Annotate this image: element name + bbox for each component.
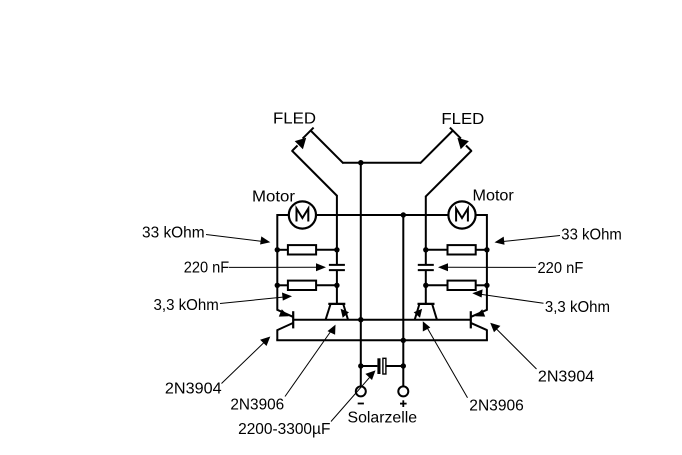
capacitor C1 220nF left top plate xyxy=(329,264,345,266)
wire storage cap right lead xyxy=(386,365,403,367)
arrow 3,3kOhm right xyxy=(472,289,482,297)
svg-text:3,3 kOhm: 3,3 kOhm xyxy=(154,297,219,314)
node R1 right end xyxy=(334,247,339,252)
FLED D1 anode wire stub xyxy=(292,146,298,152)
FLED D2 cathode wire xyxy=(420,131,453,164)
wire center-left vertical xyxy=(360,163,362,387)
resistor R3 33k right stub left xyxy=(426,249,448,251)
arrow 2N3906 left xyxy=(328,325,336,335)
motor M1 circle xyxy=(289,201,316,228)
svg-text:33 kOhm: 33 kOhm xyxy=(561,227,622,244)
leader 2N3904 right xyxy=(496,329,537,370)
FLED D2 cathode bar xyxy=(450,128,461,139)
resistor R4 3,3k right stub right xyxy=(476,284,487,286)
transistor Q1 2N3904 left base bar xyxy=(292,311,294,328)
node storage cap right tap xyxy=(401,363,406,368)
wire left outer vertical xyxy=(276,214,278,311)
node R3 right end xyxy=(484,247,489,252)
arrow 2200-3300uF xyxy=(365,370,375,380)
plus sign horizontal xyxy=(400,403,407,405)
transistor Q1 emitter diagonal xyxy=(277,323,293,330)
arrow 33kOhm left xyxy=(260,236,270,244)
svg-text:Motor: Motor xyxy=(252,188,296,205)
node bus right-center junction xyxy=(401,338,406,343)
transistor Q2 emitter leg xyxy=(343,305,348,320)
resistor R4 3,3k right body xyxy=(448,281,476,290)
FLED D1 cathode bar xyxy=(303,128,314,139)
node R3 left end xyxy=(423,247,428,252)
transistor Q3 emitter diagonal xyxy=(471,323,487,330)
arrow 3,3kOhm left xyxy=(282,293,292,301)
arrow 2N3904 right xyxy=(490,323,500,333)
transistor Q2 emitter arrow xyxy=(341,309,349,318)
motor M1 letter M xyxy=(297,209,309,222)
node motor row right junction xyxy=(401,212,406,217)
transistor Q4 emitter leg xyxy=(415,305,420,320)
leader 3,3kOhm left xyxy=(220,297,284,304)
transistor Q1 collector arrow xyxy=(279,309,289,316)
FLED D2 anode triangle xyxy=(457,138,469,150)
capacitor C1 220nF left bottom plate xyxy=(329,269,345,271)
svg-text:FLED: FLED xyxy=(441,111,484,128)
wire Q3 emitter vertical xyxy=(486,329,488,340)
wire center-right vertical xyxy=(402,215,404,387)
svg-text:3,3 kOhm: 3,3 kOhm xyxy=(545,299,610,316)
leader 220nF right xyxy=(446,266,536,268)
wire right cap branch vertical lower xyxy=(425,271,427,304)
leader 2N3906 left xyxy=(285,331,331,397)
resistor R1 33k left body xyxy=(288,245,316,254)
wire bottom bus xyxy=(276,339,488,341)
terminal plus circle xyxy=(398,386,408,396)
transistor Q2 collector leg xyxy=(326,305,331,320)
node base row left-center junction xyxy=(358,317,363,322)
svg-text:FLED: FLED xyxy=(273,111,316,128)
transistor Q3 collector arrow xyxy=(475,309,485,316)
transistor Q4 emitter arrow xyxy=(414,309,422,318)
terminal minus circle xyxy=(356,386,366,396)
svg-text:220 nF: 220 nF xyxy=(184,259,230,276)
motor M2 letter M xyxy=(456,209,468,222)
transistor Q1 collector diagonal xyxy=(277,310,293,317)
arrow 33kOhm right xyxy=(495,237,505,245)
transistor Q4 collector leg xyxy=(432,305,437,320)
capacitor C3 2200-3300uF negative plate xyxy=(377,358,380,374)
plus sign vertical xyxy=(402,400,404,407)
motor M2 circle xyxy=(448,201,475,228)
svg-text:2N3906: 2N3906 xyxy=(469,397,524,414)
svg-text:2N3906: 2N3906 xyxy=(230,397,284,414)
svg-text:Motor: Motor xyxy=(473,187,515,204)
svg-text:2N3904: 2N3904 xyxy=(538,368,594,385)
wire D1 anode to left cap branch xyxy=(292,151,337,197)
FLED D2 anode wire stub xyxy=(466,146,472,152)
svg-text:2N3904: 2N3904 xyxy=(165,380,222,397)
wire motor row horizontal xyxy=(277,214,487,216)
resistor R1 33k left stub right xyxy=(316,249,337,251)
resistor R3 33k right stub right xyxy=(476,249,487,251)
leader 33kOhm right xyxy=(503,236,560,242)
node R1 left end xyxy=(275,247,280,252)
minus sign xyxy=(358,403,364,405)
node R2 left end xyxy=(275,283,280,288)
svg-text:2200-3300µF: 2200-3300µF xyxy=(238,421,331,438)
arrow 220nF right xyxy=(438,263,448,271)
capacitor C3 2200-3300uF positive plate xyxy=(383,358,386,374)
node top center junction xyxy=(358,160,363,165)
arrow 2N3904 left xyxy=(260,337,270,347)
leader 220nF left xyxy=(229,266,318,268)
wire left cap branch vertical upper xyxy=(336,195,338,264)
wire storage cap left lead xyxy=(361,365,378,367)
wire left cap branch vertical lower xyxy=(336,271,338,304)
resistor R1 33k left stub left xyxy=(277,249,288,251)
wire right outer vertical xyxy=(486,214,488,311)
leader 2200-3300uF xyxy=(331,378,370,422)
node storage cap left tap xyxy=(358,363,363,368)
svg-text:220 nF: 220 nF xyxy=(538,260,584,277)
transistor Q2 2N3906 left base bar xyxy=(328,303,345,305)
wire base row horizontal xyxy=(293,319,471,321)
node R4 left end xyxy=(423,283,428,288)
wire Q1 emitter vertical xyxy=(276,329,278,340)
capacitor C2 220nF right top plate xyxy=(418,264,434,266)
resistor R2 3,3k left stub left xyxy=(277,284,288,286)
wire right cap branch vertical upper xyxy=(425,196,427,264)
resistor R2 3,3k left body xyxy=(288,281,316,290)
transistor Q3 collector diagonal xyxy=(471,310,487,317)
capacitor C2 220nF right bottom plate xyxy=(418,269,434,271)
resistor R2 3,3k left stub right xyxy=(316,284,337,286)
leader 33kOhm left xyxy=(206,235,263,242)
FLED D1 cathode wire xyxy=(311,131,344,164)
arrow 2N3906 right xyxy=(423,321,431,331)
transistor Q4 2N3906 right base bar xyxy=(418,303,435,305)
node R4 right end xyxy=(484,283,489,288)
svg-text:Solarzelle: Solarzelle xyxy=(348,409,418,426)
leader 2N3906 right xyxy=(427,328,468,398)
svg-text:33 kOhm: 33 kOhm xyxy=(142,224,205,241)
leader 2N3904 left xyxy=(222,343,265,384)
resistor R4 3,3k right stub left xyxy=(426,284,448,286)
FLED D1 anode triangle xyxy=(295,138,307,150)
wire top horizontal net V+ xyxy=(343,162,422,164)
leader 3,3kOhm right xyxy=(481,294,544,303)
resistor R3 33k right body xyxy=(448,245,476,254)
wire D2 anode to right cap branch xyxy=(425,151,471,197)
arrow 220nF left xyxy=(316,263,326,271)
transistor Q3 2N3904 right base bar xyxy=(470,311,472,328)
node R2 right end xyxy=(334,283,339,288)
